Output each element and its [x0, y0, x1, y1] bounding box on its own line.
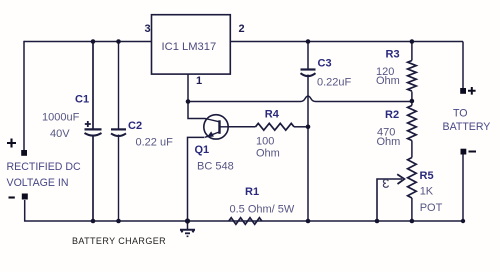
wire battery plus drop	[462, 42, 464, 89]
capacitor C2	[111, 129, 126, 136]
op-amp box IC1 LM317	[152, 15, 231, 74]
wire R3 bottom stub	[411, 92, 413, 106]
svg-text:1000uF: 1000uF	[42, 112, 80, 124]
wire C2 branch	[118, 42, 120, 222]
svg-text:BATTERY: BATTERY	[443, 121, 491, 133]
wire R5 wiper to bottom rail	[377, 179, 402, 221]
resistor R4	[256, 123, 295, 130]
svg-text:Q1: Q1	[195, 144, 210, 156]
svg-text:2: 2	[239, 23, 245, 35]
input plus sign	[7, 139, 16, 148]
node junction dot R3 top	[410, 39, 415, 44]
wire battery minus drop	[462, 155, 464, 222]
battery plus terminal	[460, 88, 466, 94]
input minus sign	[9, 196, 15, 198]
svg-text:RECTIFIED DC: RECTIFIED DC	[7, 161, 82, 173]
svg-text:R5: R5	[420, 170, 434, 182]
wire R3 top stub	[411, 42, 413, 61]
node junction dot ground	[185, 218, 190, 223]
ground	[180, 221, 195, 236]
svg-text:POT: POT	[420, 202, 443, 214]
wire LM317 pin1 drop	[187, 74, 189, 101]
node junction dot C3 bottom	[306, 219, 311, 224]
node junction dot R5 bottom	[410, 219, 415, 224]
wire R4 to C3 branch	[294, 126, 308, 128]
resistor R1	[229, 218, 262, 225]
node junction dot battery minus corner	[461, 219, 465, 223]
svg-text:C2: C2	[128, 120, 142, 132]
svg-text:0.22uF: 0.22uF	[317, 77, 352, 89]
node junction dot pin1	[186, 99, 191, 104]
wire bottom rail	[93, 220, 463, 222]
node junction dot C2 top	[116, 39, 121, 44]
svg-text:1K: 1K	[420, 186, 434, 198]
svg-text:BC 548: BC 548	[197, 161, 234, 173]
capacitor C1	[85, 121, 102, 136]
node junction dot C1 bottom	[91, 219, 96, 224]
battery plus sign	[468, 87, 476, 95]
node junction dot C1 top	[91, 39, 96, 44]
svg-text:3: 3	[145, 23, 151, 35]
wire C3 branch	[307, 42, 309, 222]
capacitor C3	[301, 70, 316, 77]
svg-text:R2: R2	[385, 109, 399, 121]
svg-text:IC1 LM317: IC1 LM317	[162, 41, 217, 53]
battery minus terminal	[461, 149, 467, 155]
input plus terminal	[21, 150, 27, 156]
wire left input vertical	[23, 41, 25, 150]
node junction dot R3 bottom	[410, 99, 415, 104]
wire collector leg	[188, 102, 206, 119]
R5 wiper arrowhead	[397, 174, 404, 184]
svg-text:Ohm: Ohm	[256, 148, 280, 160]
svg-text:1: 1	[196, 75, 202, 87]
svg-text:0.22 uF: 0.22 uF	[136, 137, 174, 149]
node junction dot R4 right	[306, 125, 311, 130]
resistor R2	[408, 106, 417, 141]
node junction dot C3 top	[306, 39, 311, 44]
svg-text:C3: C3	[318, 58, 332, 70]
node junction dot wiper bottom	[375, 219, 380, 224]
wire emitter leg	[188, 137, 205, 221]
wire C1 branch	[92, 42, 94, 222]
battery minus sign	[469, 151, 477, 153]
node junction dot C2 bottom	[116, 219, 121, 224]
svg-text:0.5 Ohm/ 5W: 0.5 Ohm/ 5W	[230, 204, 295, 216]
input minus terminal	[22, 194, 28, 200]
wire input minus drop	[25, 200, 93, 221]
svg-text:R1: R1	[245, 186, 259, 198]
wire top rail left segment	[24, 41, 152, 43]
svg-text:C1: C1	[75, 94, 89, 106]
transistor Q1	[204, 115, 228, 139]
potentiometer R5	[408, 158, 417, 199]
resistor R3	[408, 61, 417, 92]
svg-text:R3: R3	[386, 49, 400, 61]
svg-text:VOLTAGE IN: VOLTAGE IN	[7, 177, 69, 189]
wire R2 to R5	[411, 141, 413, 158]
wire mid rail with hop over C3 branch	[188, 96, 412, 101]
R5 wiper curl	[383, 180, 388, 188]
wire top rail right segment	[230, 41, 463, 43]
wire base to R4	[228, 126, 256, 128]
svg-text:Ohm: Ohm	[377, 136, 401, 148]
svg-text:Ohm: Ohm	[376, 75, 400, 87]
svg-text:40V: 40V	[50, 128, 70, 140]
svg-text:100: 100	[256, 136, 274, 148]
svg-text:TO: TO	[453, 108, 468, 120]
svg-text:R4: R4	[265, 109, 280, 121]
svg-text:BATTERY CHARGER: BATTERY CHARGER	[72, 236, 166, 246]
wire R5 bottom stub	[411, 198, 413, 221]
